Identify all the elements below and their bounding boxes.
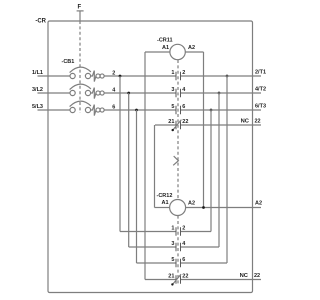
svg-text:1: 1	[171, 226, 174, 232]
svg-text:4: 4	[182, 241, 186, 247]
svg-text:A1: A1	[162, 45, 169, 51]
svg-text:2: 2	[182, 70, 185, 76]
svg-text:3: 3	[171, 87, 174, 93]
svg-text:-CB1: -CB1	[62, 59, 75, 65]
svg-text:5: 5	[171, 257, 174, 263]
svg-text:-CR11: -CR11	[157, 38, 173, 44]
svg-text:1: 1	[171, 70, 174, 76]
svg-text:21: 21	[168, 274, 174, 280]
svg-text:NC: NC	[240, 273, 249, 279]
svg-text:5: 5	[171, 104, 174, 110]
svg-text:NC: NC	[241, 119, 250, 125]
svg-text:6: 6	[182, 104, 185, 110]
svg-text:21: 21	[168, 119, 174, 125]
svg-text:6: 6	[182, 257, 185, 263]
svg-text:A2: A2	[255, 201, 262, 207]
svg-text:22: 22	[254, 273, 260, 279]
svg-text:-CR12: -CR12	[157, 193, 173, 199]
svg-text:4: 4	[182, 87, 186, 93]
svg-text:22: 22	[182, 274, 188, 280]
svg-text:-CR: -CR	[35, 19, 46, 25]
svg-text:6: 6	[112, 104, 115, 110]
svg-text:4/T2: 4/T2	[255, 86, 266, 92]
svg-text:3/L2: 3/L2	[32, 87, 43, 93]
svg-text:A2: A2	[188, 200, 195, 206]
svg-text:F: F	[77, 5, 81, 11]
svg-text:22: 22	[255, 119, 261, 125]
svg-text:2: 2	[182, 226, 185, 232]
svg-text:2: 2	[112, 70, 115, 76]
svg-text:A2: A2	[188, 45, 195, 51]
svg-text:A1: A1	[162, 200, 169, 206]
svg-text:22: 22	[182, 119, 188, 125]
svg-text:6/T3: 6/T3	[255, 103, 266, 109]
svg-text:5/L3: 5/L3	[32, 104, 43, 110]
svg-text:2/T1: 2/T1	[255, 69, 266, 75]
svg-text:1/L1: 1/L1	[32, 70, 43, 76]
svg-text:3: 3	[171, 241, 174, 247]
